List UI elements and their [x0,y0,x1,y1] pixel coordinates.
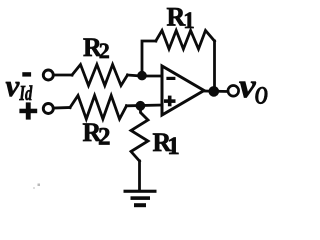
wire noninverting input [127,104,163,108]
svg-text:2: 2 [99,38,110,63]
node inverting junction [137,71,147,81]
wire to ground [138,161,141,191]
node noninverting junction [136,101,146,111]
resistor R2 bottom zigzag [70,96,127,120]
ground [124,190,157,208]
node output junction [209,86,220,97]
svg-text:O: O [255,82,268,109]
wire [128,74,139,78]
svg-text:1: 1 [183,8,195,33]
resistor R1 grounded zigzag [131,106,148,161]
wire feedback left vertical [142,41,156,76]
wire [54,74,73,77]
terminal plus input [43,104,53,114]
terminal output [228,86,239,97]
label R2 bottom [83,118,111,151]
svg-text:2: 2 [98,124,111,151]
wire feedback right vertical [213,41,216,91]
wire output [204,90,228,93]
svg-text:v: v [6,68,21,103]
terminal minus input [43,70,53,80]
wire [54,106,71,109]
resistor R2 top zigzag [72,65,128,86]
speck artifact [33,184,40,190]
resistor R1 feedback zigzag [156,31,215,50]
op-amp U1 triangle [162,66,204,115]
label R2 top [83,33,110,63]
op-amp plus pin label [164,96,176,107]
svg-text:Id: Id [19,81,33,104]
label vO [239,67,268,110]
wire inverting input [141,75,162,78]
label vId [6,68,34,105]
label R1 top [167,3,195,33]
input minus sign [22,72,31,76]
op-amp minus pin label [166,77,175,80]
svg-text:1: 1 [167,133,180,160]
label R1 right [153,128,180,160]
input plus sign [19,102,37,119]
